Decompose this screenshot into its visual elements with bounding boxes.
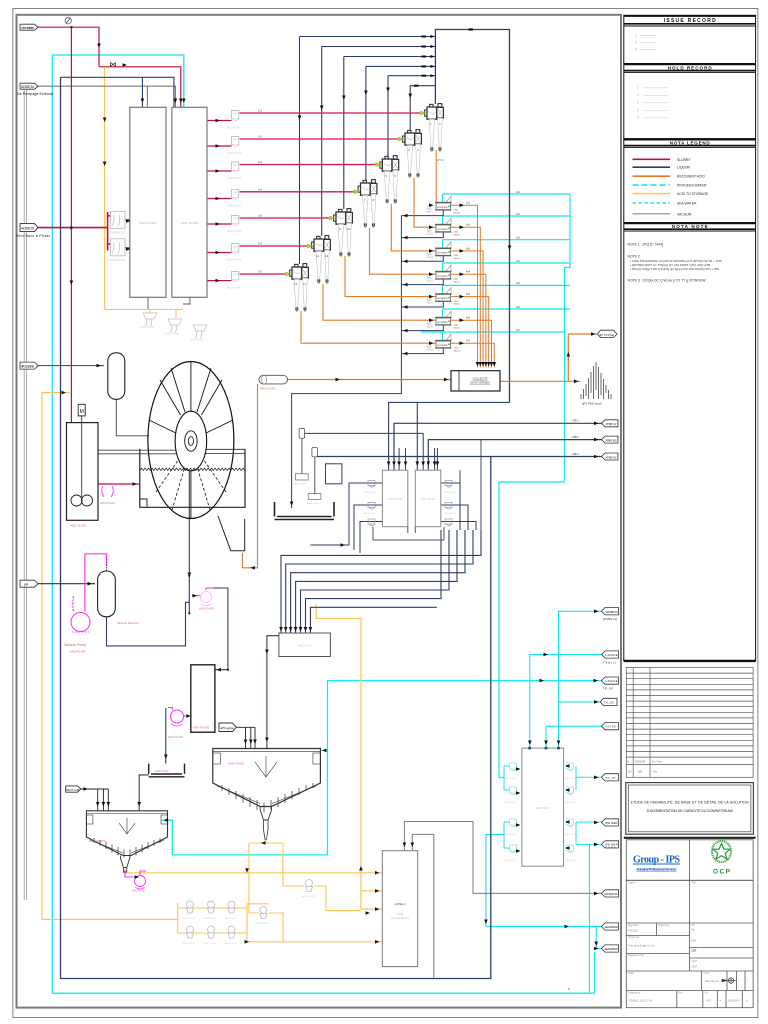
svg-text:2x2: 2x2 [516,213,521,216]
wire yellow train out [247,904,382,942]
process box B [415,470,441,527]
wire navy bundle h1 [300,36,436,38]
wire navy cascade L6 [306,530,442,634]
svg-text:SLURRY: SLURRY [677,158,691,162]
wire navy drop c2 [409,86,411,130]
svg-text:comptoir: comptoir [437,251,448,255]
svg-text:2x2: 2x2 [258,135,263,139]
svg-text:NOTE 1 : JPQ [C 7444]: NOTE 1 : JPQ [C 7444] [628,243,663,247]
svg-text:Drawing no: Drawing no [628,992,641,995]
wire gray reclaim line [81,789,109,811]
svg-text:ANO-TK-00: ANO-TK-00 [298,644,312,648]
stockpile symbol [581,362,611,399]
wire cyan deck row 4 [443,263,571,272]
svg-text:0/8: 0/8 [638,769,643,773]
svg-text:ANO-TK-001: ANO-TK-001 [139,221,157,225]
wire navy drop c3 [387,76,389,156]
projection symbol [722,977,736,984]
wire navy tk discharge [165,708,167,764]
svg-text:SEA WATER: SEA WATER [605,926,618,929]
svg-text:ATBR 17: ATBR 17 [606,422,618,426]
svg-text:Ha: Ha [653,769,657,773]
svg-text:5: 5 [637,116,639,120]
svg-text:4x7: 4x7 [466,340,471,343]
ARROWS [62,44,221,586]
svg-text:ANO-FS-008: ANO-FS-008 [140,326,154,329]
svg-text:qPS PAIX stock: qPS PAIX stock [582,402,602,406]
wire tank bottoms [148,297,190,309]
svg-text:Vacuum Receiver: Vacuum Receiver [117,621,139,625]
wire navy drop c5 [343,57,345,210]
svg-text:ANO-FS-010: ANO-FS-010 [190,339,204,342]
svg-text:Vers Bacs à Priser: Vers Bacs à Priser [16,234,51,238]
process box A [382,470,407,527]
wire navy box port stubs [399,448,437,470]
svg-text:ANO-TK-002: ANO-TK-002 [181,221,199,225]
wire cyan left pump pair2 [504,822,510,848]
wire orange cyclone u3 [391,204,436,251]
svg-text:ATB 3: ATB 3 [572,453,579,456]
svg-text:Group - IPS: Group - IPS [633,855,680,866]
svg-text:4x3: 4x3 [466,247,471,250]
wire orange cyclone u7 [301,311,436,343]
svg-text:GA-14: GA-14 [454,349,461,352]
svg-text:ATB 1: ATB 1 [572,420,579,423]
wire cyan sea water flag2 drop [596,927,601,949]
svg-text:Air Comprimé: Air Comprimé [21,364,34,368]
svg-text:RECLAIM: RECLAIM [66,788,80,792]
svg-text:ANO-PU-000: ANO-PU-000 [199,608,214,611]
panel box A (issue record) [624,15,756,63]
svg-text:(PURG xx): (PURG xx) [603,617,617,621]
node J2 [70,226,73,229]
svg-text:GLP: GLP [692,959,698,963]
cyclone cluster CY3 [380,156,399,205]
svg-text:ACID TO STORAGE: ACID TO STORAGE [677,192,709,196]
wire orange cyclone u2 [414,178,436,227]
wire gray air line [38,365,104,367]
wire crimson feed B6 [240,245,308,247]
flag ATBR 100 [572,436,618,443]
flag sea water 2 [602,945,619,952]
svg-text:4: 4 [637,108,639,112]
flag Acide 29 (left) [16,224,51,238]
wire navy bundle h5 [388,75,435,77]
wire navy cascade right risers [460,440,481,530]
wire yellow screen manifold [105,309,183,318]
svg-text:ANO-TK-00: ANO-TK-00 [536,806,550,810]
svg-text:1/600 A3: 1/600 A3 [728,999,740,1003]
wire crimson feed A1 [207,120,232,122]
flag water purge [602,608,619,622]
MAGENTA [85,554,214,877]
wire cyan flag tk stub [559,701,602,703]
svg-text:VACUUM: VACUUM [677,212,692,216]
cyclone cluster CY6 [312,236,331,285]
svg-text:TK_00: TK_00 [604,700,615,704]
wire cyan deck row 1 [443,194,571,203]
svg-text:PDWQ_INI_P_IN: PDWQ_INI_P_IN [629,999,652,1003]
wire navy atbr1 [394,423,602,470]
svg-text:qPI TO PILE: qPI TO PILE [599,333,614,337]
svg-text:LAVAGE: LAVAGE [606,653,618,657]
svg-text:B: B [628,760,630,764]
chartreuse arrows at cyclone feeds [286,111,427,276]
svg-text:LAVAGE: LAVAGE [606,679,618,683]
svg-text:ANO-TK-00: ANO-TK-00 [155,769,169,773]
wire navy bundle h3 [344,56,436,58]
project title box [626,783,754,835]
svg-text:GA-05: GA-05 [427,302,434,305]
svg-text:ATB 2: ATB 2 [572,436,579,439]
wire gray air capsule drop [116,399,149,436]
PIPES [24,55,601,993]
wire yellow underflow branchB [247,843,283,942]
wire navy cascade L5 [301,530,450,634]
svg-text:Scale: Scale [628,972,635,975]
svg-text:4x4: 4x4 [466,271,471,274]
pump ANO-PU-011 [110,211,126,234]
wire cyan right pumps out2 [576,822,602,844]
wire yellow left long [42,393,178,920]
svg-text:2x1: 2x1 [258,109,263,113]
svg-text:10: 10 [347,227,351,231]
deck screen unit 4 [427,265,461,283]
deck screen unit 6 [427,311,461,329]
svg-text:TK_07: TK_07 [606,776,617,780]
svg-text:ANO-PU-00: ANO-PU-00 [183,917,195,920]
wire crimson acid flag [38,212,111,251]
wire navy atbr3 [316,456,601,458]
svg-text:SEA WATER: SEA WATER [677,202,697,206]
svg-text:ANO-PU-001: ANO-PU-001 [227,127,242,130]
svg-text:Industrial Professional Servic: Industrial Professional Services [637,868,677,872]
deck screen unit 7 [427,334,461,352]
svg-text:NOTA NOTE: NOTA NOTE [672,224,708,229]
svg-text:GA-01: GA-01 [427,210,434,213]
svg-text:WATER 04: WATER 04 [606,610,619,614]
wire navy probe1 line [305,433,424,470]
legend line liquor [633,166,671,168]
svg-text:ANO-TH-002: ANO-TH-002 [228,762,245,766]
svg-text:BW MER: BW MER [606,821,618,825]
capsule ANO-CO-000 [259,375,288,390]
svg-text:comptoir: comptoir [437,274,448,278]
wire cyan left pump pair1 [504,766,510,790]
wire navy deck chain A [292,210,444,508]
svg-text:2x4: 2x4 [516,260,521,263]
svg-text:4x1: 4x1 [466,202,471,205]
svg-text:BW MER: BW MER [606,843,618,846]
flag Air Comprime [20,362,38,369]
wire gray hose water out A [404,822,601,894]
node J1 [70,26,72,28]
wire orange cyclone u6 [323,284,436,320]
wire magenta tk pump stub [168,708,191,717]
svg-text:D'AUGMENTATION DE CAPACITÉ DU: D'AUGMENTATION DE CAPACITÉ DU DOWNSTREAM [647,808,733,813]
thickener 1 [86,811,167,872]
svg-text:TK_00: TK_00 [603,686,614,690]
flag eau mer 2 [602,841,619,849]
wire cyan thickener2 stub [320,749,327,751]
svg-text:HOSE 2: HOSE 2 [394,902,405,906]
small navy box [326,464,342,484]
screen S1 below tanks [140,313,157,329]
navy top arrows [298,28,473,120]
wire gray hose water out B [412,834,434,977]
wire navy deck chain B [401,279,443,354]
legend line recovery acid [633,175,671,177]
svg-text:ANO-PU-00: ANO-PU-00 [504,777,516,780]
wire navy box2 right ports [441,483,476,530]
wire navy filter cake drop [188,470,190,613]
wire navy repulper discharge [267,636,279,748]
wire black vat drain [218,516,245,551]
deck screen unit 1 [427,196,461,214]
wire orange collector out [500,334,597,381]
svg-text:DIB: DIB [692,949,697,953]
wire crimson feed B3 [240,164,376,166]
svg-text:2x1: 2x1 [516,191,521,194]
wire orange deck out 2 [451,227,481,367]
flag ATBR 92 [572,453,618,460]
wire orange cyclone u5 [345,256,436,297]
cyclone cluster CY4 [358,180,377,229]
wire cyan deck row 5 [443,285,571,294]
PANEL [624,15,756,1007]
svg-text:2x3: 2x3 [516,237,521,240]
wire navy cake transfer [213,588,228,670]
svg-text:11: 11 [316,254,319,258]
pump trains row1 [183,901,237,920]
flag qPS gypse [219,723,236,732]
svg-text:ANO-PU-000: ANO-PU-000 [70,650,86,654]
instrument vent circle [65,18,71,24]
legend line acid to storage [633,193,671,195]
deck screen unit 3 [427,242,461,260]
vacuum receiver [98,564,139,625]
svg-text:14: 14 [303,282,307,286]
svg-text:2x6: 2x6 [516,306,521,309]
wire navy drop c7 [299,37,301,265]
drawing frame [17,15,622,1008]
flag pH [20,580,38,587]
svg-text:ATBR 100: ATBR 100 [606,439,618,443]
cyan/yellow arrows [135,610,599,951]
svg-text:comptoir: comptoir [437,320,448,324]
cyclone cluster CY1 [425,104,444,153]
wire yellow big header [123,867,382,872]
wire crimson inlet top [38,27,181,484]
svg-text:LIQUOR: LIQUOR [677,166,691,170]
svg-text:comptoir: comptoir [437,296,448,300]
svg-text:xxxxxxxx xxxxxxx: xxxxxxxx xxxxxxx [391,918,410,920]
svg-text:1: 1 [637,86,639,90]
svg-text:ANO-FS-009: ANO-FS-009 [165,333,179,336]
svg-text:ANO-PU-00: ANO-PU-00 [364,491,376,494]
hold list items [637,86,639,120]
wire crimson feed A2 [207,145,232,147]
svg-text:GLP: GLP [692,965,698,969]
svg-text:13: 13 [294,282,298,286]
wire magenta filter pump [192,588,214,596]
box side pumps left [364,481,376,526]
svg-text:ATBR 92: ATBR 92 [606,455,618,459]
wire crimson vat feed [71,483,139,485]
svg-text:OCP: OCP [713,869,731,876]
svg-text:GA-02: GA-02 [427,232,434,235]
svg-text:pH: pH [24,583,29,587]
svg-text:ANO-PU-007: ANO-PU-007 [302,895,316,898]
svg-text:ANO-PU-00: ANO-PU-00 [504,833,516,836]
flag tk07 [602,774,619,781]
svg-text:ANO-PU-003: ANO-PU-003 [227,177,242,180]
wire navy bundle h4 [366,65,436,67]
wire navy basin2 to thickener1 [139,775,149,811]
svg-text:ANO-TK-00: ANO-TK-00 [421,497,435,501]
svg-text:2x3: 2x3 [258,160,263,164]
svg-text:3: 3 [635,48,637,52]
wire crimson feed B5 [240,217,330,219]
wire navy bundle h6 [410,85,435,87]
wire navy bundle h2 [322,46,436,48]
flag tk00 b [602,723,619,730]
svg-text:qPS gypse: qPS gypse [220,726,234,730]
svg-text:Ed: Ed [692,928,696,932]
wire cyan purge flag [559,611,602,748]
flag lavage2 [602,677,619,690]
svg-text:4x5: 4x5 [466,293,471,296]
svg-text:ANO-PU-00: ANO-PU-00 [566,859,578,862]
svg-text:WATER 00: WATER 00 [605,892,619,896]
svg-text:Contr: Contr [704,972,710,975]
wire orange cyclone u4 [370,228,437,274]
repulper box [279,633,331,657]
svg-text:ANO-TK-00: ANO-TK-00 [388,497,402,501]
svg-text:TK+00: TK+00 [606,725,617,729]
logo row box [626,840,753,881]
flag water00 gray [602,890,619,897]
svg-text:2x5: 2x5 [516,282,521,285]
wire orange deck out 1 [451,205,478,367]
svg-text:2x7: 2x7 [258,270,263,274]
wire navy cascade L2 [286,530,473,634]
svg-text:3: 3 [637,101,639,105]
wire gray ph line [38,583,95,585]
svg-text:GA-04: GA-04 [427,279,434,282]
magenta pump filter cake [199,592,214,611]
wire crimson feed A7 [207,280,232,282]
wire crimson feed A6 [207,252,232,254]
air receiver capsule [108,353,125,400]
wire gray left pair [24,90,26,900]
svg-text:ACIDE 54: ACIDE 54 [21,85,34,89]
svg-text:Vacuum Pump: Vacuum Pump [64,643,86,647]
svg-text:12: 12 [325,254,329,258]
svg-text:ETUDE DE FAISABILITÉ, DE BASE: ETUDE DE FAISABILITÉ, DE BASE ET DE DÉTA… [631,799,749,804]
wire crimson feed B2 [240,138,399,140]
box side pumps right [445,481,457,526]
wire orange cyclone u1 [435,150,437,203]
cyclone cluster CY7 [290,264,309,313]
svg-text:De Pompage External: De Pompage External [17,92,53,96]
svg-text:GA-03: GA-03 [427,256,434,259]
svg-text:GA-13: GA-13 [454,326,461,329]
wire cyan deck row 6 [443,309,571,318]
svg-text:ANO-PU-000: ANO-PU-000 [100,502,115,505]
svg-text:4x6: 4x6 [466,317,471,320]
wire crimson feed A3 [207,170,232,172]
flag sea water 1 [602,923,619,930]
svg-text:Base Eng: Base Eng [659,924,670,927]
legend line process water [633,184,671,186]
svg-text:ANO-LT-001: ANO-LT-001 [294,483,307,486]
hose box [382,851,417,967]
wire cyan main loop [52,55,594,993]
probe 2 [307,447,321,505]
wire crimson pump outs [125,220,131,248]
wire cyan right drop long [589,844,591,993]
wire yellow pump train rows [178,903,247,933]
wire cyan right pumps out1 [576,766,602,790]
issue list items [635,34,637,52]
svg-text:ANO-PU-000: ANO-PU-000 [168,736,183,739]
svg-text:ANO-PU-007: ANO-PU-007 [227,287,242,290]
svg-text:ACIDE 29: ACIDE 29 [21,226,34,230]
flag reclaim [66,786,81,792]
water tank pumps right [566,763,578,862]
wire orange deck out 3 [451,251,484,368]
svg-text:A: A [720,999,722,1003]
svg-text:2x6: 2x6 [258,242,263,246]
tank ANO-TK-005 [191,665,215,732]
flag eau mer 1 [602,819,619,826]
wire navy cascade L3 [291,530,465,634]
wire orange deck out 4 [451,274,486,367]
svg-text:NOTA LEGEND: NOTA LEGEND [670,140,711,145]
svg-text:ANO-PU-00: ANO-PU-00 [132,890,145,893]
flag Vers Intake (top-left) [20,24,38,30]
wire navy box feed header [389,402,510,470]
svg-text:ANO-PU-00: ANO-PU-00 [225,917,237,920]
boxes trough [373,527,444,540]
svg-text:Title: Title [692,882,697,885]
svg-text:ANO-LT-002: ANO-LT-002 [307,502,320,505]
svg-text:ANO-PU-00: ANO-PU-00 [204,917,216,920]
svg-text:CY 1: CY 1 [437,158,444,162]
wire navy top loop [435,30,509,403]
valve X on crimson [111,62,116,66]
info grid [626,880,753,1007]
wire navy atbr2 [428,440,601,471]
wire gray inlet flag2 [38,86,175,107]
wire crimson feed B4 [240,191,354,193]
svg-text:ANO-PU-006: ANO-PU-006 [227,259,242,262]
svg-text:PROCESS WATER: PROCESS WATER [677,184,707,188]
svg-text:ANO-PU-004: ANO-PU-004 [227,205,242,208]
svg-text:RECOVERY ACID: RECOVERY ACID [677,175,705,179]
svg-text:ANO-PU-011: ANO-PU-011 [110,258,126,262]
svg-text:ANO-PU-002: ANO-PU-002 [227,152,242,155]
wire navy drop c4 [365,66,367,180]
wire cyan deck collector [499,194,570,778]
wire navy cascade L4 [296,530,457,634]
svg-text:The first Draft m hal: The first Draft m hal [628,944,655,948]
svg-text:SOUS VERSES: SOUS VERSES [470,381,490,385]
flag De Pompage (left) [17,83,53,96]
svg-text:2: 2 [637,93,639,97]
svg-text:Fw Yssd: Fw Yssd [652,760,662,764]
